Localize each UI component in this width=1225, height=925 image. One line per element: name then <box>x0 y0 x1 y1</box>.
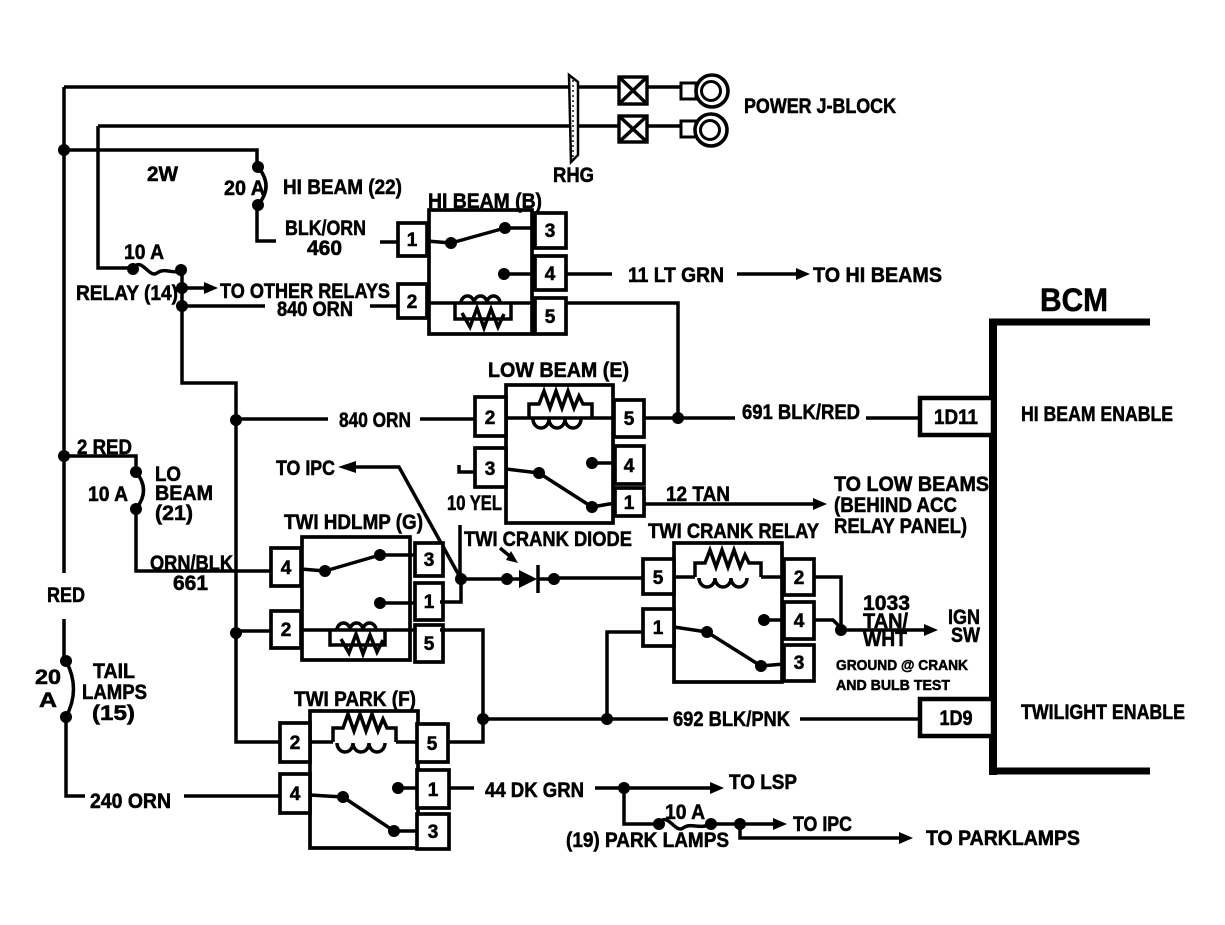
fuse 10A LO BEAM (21) <box>130 466 144 515</box>
svg-text:RELAY (14): RELAY (14) <box>76 282 178 305</box>
svg-text:2: 2 <box>407 292 418 313</box>
svg-text:840 ORN: 840 ORN <box>339 409 411 432</box>
node: junction main feed to 2 RED branch <box>58 450 70 462</box>
wire: 10 YEL down to diode node <box>458 525 462 579</box>
fuse 20A TAIL LAMPS (15) <box>60 655 74 723</box>
svg-text:4: 4 <box>794 611 805 632</box>
svg-text:4: 4 <box>290 784 301 805</box>
svg-text:4: 4 <box>624 456 635 477</box>
svg-text:TWI CRANK DIODE: TWI CRANK DIODE <box>464 528 632 551</box>
wire 691 BLK/RED from LOW BEAM pin 5 to 1D11 <box>644 416 922 420</box>
label 1033 TAN/ WHT <box>863 592 910 651</box>
wire TWI CRANK pin 2 to 1033 junction <box>814 577 841 628</box>
svg-text:5: 5 <box>653 568 664 589</box>
wire arrow 1033 TAN/WHT to IGN SW <box>841 624 938 636</box>
label TO LOW BEAMS (BEHIND ACC RELAY PANEL) <box>834 473 989 538</box>
svg-text:1: 1 <box>424 592 435 613</box>
svg-text:2: 2 <box>794 568 805 589</box>
node: junction 44 DK GRN <box>618 782 630 794</box>
relay TWI CRANK RELAY <box>643 520 819 682</box>
svg-text:2: 2 <box>485 408 496 429</box>
svg-text:RED: RED <box>47 584 85 607</box>
connector 1D11 <box>920 398 993 435</box>
wire ORN/BLK 661 to TWI HDLMP pin 4 <box>136 509 271 571</box>
label TAIL LAMPS (15) <box>82 660 147 725</box>
grommet RHG <box>569 75 578 162</box>
wire arrow TO IPC with diagonal <box>338 461 461 579</box>
connector 1D9 <box>920 699 993 736</box>
label IGN SW <box>948 606 980 647</box>
svg-text:840 ORN: 840 ORN <box>277 298 353 321</box>
wire: fuse to BLK/ORN 460 stub <box>257 205 276 241</box>
wire arrow TO PARKLAMPS <box>740 824 913 844</box>
svg-text:TO LOW BEAMS: TO LOW BEAMS <box>834 473 989 496</box>
label ORN/BLK 661 <box>150 552 233 595</box>
svg-text:LAMPS: LAMPS <box>82 681 147 704</box>
svg-text:TWI HDLMP (G): TWI HDLMP (G) <box>284 511 423 534</box>
svg-text:1: 1 <box>653 618 664 639</box>
svg-text:691 BLK/RED: 691 BLK/RED <box>742 401 860 424</box>
svg-text:POWER J-BLOCK: POWER J-BLOCK <box>744 95 896 118</box>
svg-text:WHT: WHT <box>863 628 907 651</box>
svg-text:661: 661 <box>173 572 208 595</box>
fuse 10A RELAY (14) <box>127 263 187 276</box>
svg-text:TO PARKLAMPS: TO PARKLAMPS <box>926 827 1080 850</box>
connector: crossed box lower <box>619 116 647 142</box>
svg-text:10 A: 10 A <box>124 241 164 264</box>
wire: relay fuse output vertical with taps <box>182 270 280 742</box>
svg-text:3: 3 <box>428 822 439 843</box>
relay LOW BEAM (E) <box>475 359 644 523</box>
wire HI BEAM pin 5 down to 691 BLK/RED <box>566 303 678 418</box>
node: junction 840 ORN to LOW BEAM <box>230 414 242 426</box>
svg-text:5: 5 <box>427 734 438 755</box>
wire 11 LT GRN from HI BEAM pin 4 <box>566 272 612 276</box>
svg-text:4: 4 <box>281 558 292 579</box>
wire: arrow to other relays <box>182 282 218 294</box>
wire TWI HDLMP pin 5 down to 692 junction <box>440 630 483 719</box>
wire 692 BLK/PNK to 1D9 <box>483 717 922 721</box>
svg-text:12 TAN: 12 TAN <box>666 483 730 506</box>
wire 12 TAN arrow TO LOW BEAMS <box>644 498 827 510</box>
svg-text:1: 1 <box>407 230 418 251</box>
wire: tail fuse down to 240 ORN <box>66 717 85 796</box>
svg-text:3: 3 <box>545 221 556 242</box>
wire TWI CRANK pin 1 down to 692 line <box>607 632 643 719</box>
svg-text:TO LSP: TO LSP <box>729 771 797 794</box>
wire: 2W branch to 20A HI BEAM fuse <box>64 150 257 167</box>
svg-text:SW: SW <box>951 624 980 647</box>
svg-text:HI BEAM (22): HI BEAM (22) <box>283 176 402 199</box>
fuse 20A HI BEAM (22) <box>252 161 266 211</box>
svg-text:AND BULB TEST: AND BULB TEST <box>836 677 950 694</box>
wire to TWI HDLMP pin 2 <box>236 629 271 633</box>
svg-text:1: 1 <box>624 493 635 514</box>
svg-text:TO IPC: TO IPC <box>793 813 852 836</box>
svg-text:BCM: BCM <box>1040 282 1108 318</box>
node: 1033 junction <box>835 624 847 636</box>
relay HI BEAM (B) <box>398 190 566 334</box>
svg-text:GROUND @ CRANK: GROUND @ CRANK <box>836 657 968 674</box>
ring terminal lower <box>681 114 727 146</box>
wire: second feed vertical down to relay fuse <box>98 126 133 268</box>
wire: LOW BEAM pin 3 stub 10 YEL <box>459 465 475 472</box>
svg-text:TWI CRANK RELAY: TWI CRANK RELAY <box>648 520 819 543</box>
svg-text:692 BLK/PNK: 692 BLK/PNK <box>673 708 790 731</box>
label 20 A <box>35 666 61 712</box>
node: junction TWI CRANK pin 1 on 692 line <box>601 713 613 725</box>
svg-text:(19) PARK LAMPS: (19) PARK LAMPS <box>566 829 729 852</box>
node: junction to TWI HDLMP pin 2 <box>230 627 242 639</box>
svg-text:TO HI BEAMS: TO HI BEAMS <box>813 264 942 287</box>
svg-text:11 LT GRN: 11 LT GRN <box>628 264 724 287</box>
svg-text:5: 5 <box>424 634 435 655</box>
svg-text:2: 2 <box>290 733 301 754</box>
wire TWI PARK pin 5 up to 692 junction <box>448 719 483 742</box>
svg-text:1D9: 1D9 <box>940 707 973 730</box>
wire 840 ORN to HI BEAM pin 2 <box>182 304 398 308</box>
svg-text:RELAY PANEL): RELAY PANEL) <box>834 515 967 538</box>
label LO BEAM (21) <box>155 463 213 525</box>
svg-text:10 A: 10 A <box>665 801 705 824</box>
label GROUND @ CRANK AND BULB TEST <box>836 657 968 694</box>
svg-text:20: 20 <box>35 666 61 689</box>
svg-text:3: 3 <box>485 459 496 480</box>
svg-text:4: 4 <box>545 264 556 285</box>
svg-text:TWI PARK (F): TWI PARK (F) <box>294 688 416 711</box>
wire 840 ORN to LOW BEAM pin 2 <box>236 417 475 421</box>
svg-text:(BEHIND ACC: (BEHIND ACC <box>834 494 957 517</box>
svg-text:RHG: RHG <box>553 164 594 187</box>
fuse 10A (19) PARK LAMPS <box>653 818 717 830</box>
node: junction pin5 wire on 691 BLK/RED <box>672 412 684 424</box>
label BLK/ORN 460 <box>285 217 366 260</box>
node: junction main feed to 20A fuse branch <box>58 144 70 156</box>
svg-text:2 RED: 2 RED <box>77 436 132 459</box>
wire: second feed to power j-block <box>98 124 683 128</box>
svg-text:1: 1 <box>428 780 439 801</box>
svg-text:10 YEL: 10 YEL <box>447 492 502 515</box>
wire arrow TO LSP <box>624 782 724 794</box>
svg-text:3: 3 <box>424 550 435 571</box>
svg-text:1D11: 1D11 <box>934 406 978 429</box>
wire arrow TO HI BEAMS <box>737 268 810 280</box>
svg-text:LOW BEAM (E): LOW BEAM (E) <box>488 359 629 382</box>
svg-text:2: 2 <box>281 620 292 641</box>
svg-text:HI BEAM ENABLE: HI BEAM ENABLE <box>1021 403 1173 426</box>
wire: main feed top from left vertical to power j-block <box>64 85 683 89</box>
svg-text:44 DK GRN: 44 DK GRN <box>485 779 584 802</box>
wire down to park lamps fuse <box>624 788 659 824</box>
svg-text:(21): (21) <box>155 502 193 525</box>
wire TWI CRANK pin 4 to 1033 junction <box>814 620 841 628</box>
svg-text:460: 460 <box>307 237 342 260</box>
svg-text:240 ORN: 240 ORN <box>90 790 171 813</box>
svg-text:TAIL: TAIL <box>93 660 135 683</box>
svg-text:(15): (15) <box>92 702 135 725</box>
svg-text:TWILIGHT ENABLE: TWILIGHT ENABLE <box>1021 701 1185 724</box>
node: tap to other relays <box>176 282 188 294</box>
svg-text:5: 5 <box>624 409 635 430</box>
wire: stub into HI BEAM relay pin 1 <box>380 240 398 244</box>
svg-text:TO IPC: TO IPC <box>276 457 335 480</box>
svg-text:5: 5 <box>545 307 556 328</box>
label TWI CRANK DIODE with pointer <box>464 528 632 563</box>
svg-text:20 A: 20 A <box>224 177 265 200</box>
node: diode node junction <box>455 573 467 585</box>
svg-text:2W: 2W <box>147 163 178 186</box>
svg-text:10 A: 10 A <box>88 483 128 506</box>
relay TWI HDLMP (G) <box>271 511 443 662</box>
wire arrow TO IPC lower <box>711 818 787 830</box>
wire 240 ORN into TWI PARK pin 4 <box>184 794 280 798</box>
relay TWI PARK (F) <box>280 688 449 849</box>
node: 692 junction at TWI PARK <box>477 713 489 725</box>
ring terminal upper <box>681 75 728 107</box>
connector: crossed box upper <box>619 77 647 104</box>
svg-text:3: 3 <box>794 653 805 674</box>
svg-text:A: A <box>39 689 57 712</box>
wire: 2 RED branch to 10A LO BEAM fuse <box>64 456 136 472</box>
wire 44 DK GRN from TWI PARK pin 1 <box>449 786 624 790</box>
module BCM bracket <box>989 319 1150 775</box>
wire TWI HDLMP pin 1 up to diode node <box>440 579 461 602</box>
wire: left main vertical RED feed <box>62 87 66 661</box>
diode TWI CRANK DIODE <box>461 565 643 593</box>
node: tap 840 ORN to HI BEAM relay <box>176 300 188 312</box>
